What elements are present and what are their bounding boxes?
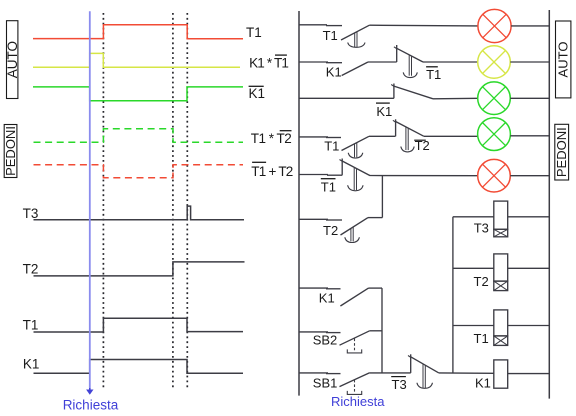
ladder left rail	[298, 11, 300, 396]
contact K1 rung2	[326, 62, 368, 79]
wire rung2 to lamp	[423, 61, 478, 63]
contact K1n rung3	[376, 84, 433, 119]
contact T3n timer	[391, 354, 439, 392]
wire SB2 rung from rail	[299, 331, 341, 334]
wire rung4 to lamp	[424, 135, 478, 137]
contact SB1 pushbutton	[313, 373, 370, 395]
svg-text:T2: T2	[23, 262, 39, 277]
wire rung4 mid	[369, 135, 396, 137]
waveform label T1 + T2 overline	[251, 162, 293, 179]
contact T1n timer rung1	[323, 25, 370, 47]
ladder right rail	[548, 10, 550, 399]
coil T2 timer	[474, 254, 508, 291]
label box AUTO right	[556, 21, 571, 98]
waveform K1 black	[34, 360, 244, 374]
lamp green2 PEDONI	[478, 118, 511, 151]
coil T1 timer	[474, 310, 508, 346]
label box AUTO left	[5, 21, 20, 99]
svg-text:T1: T1	[324, 139, 339, 154]
svg-text:AUTO: AUTO	[5, 41, 20, 78]
svg-text:K1: K1	[475, 376, 491, 391]
waveform T1n+T2 red dashed	[34, 165, 244, 178]
wire rung5 to lamp	[370, 175, 478, 177]
wire T3n contact to K1 coil	[439, 372, 494, 374]
wire rung2 from rail	[299, 61, 342, 64]
time marker dotted line 3	[186, 13, 188, 389]
svg-text:K1: K1	[326, 64, 342, 79]
svg-text:PEDONI: PEDONI	[554, 127, 569, 177]
waveform T2	[34, 262, 245, 276]
contact SB2 pushbutton	[313, 331, 370, 353]
svg-text:Richiesta: Richiesta	[63, 398, 119, 413]
lamp red AUTO	[478, 9, 511, 42]
time marker dotted line 1	[102, 13, 104, 388]
svg-text:PEDONI: PEDONI	[3, 126, 18, 176]
coil K1 contactor	[475, 360, 508, 391]
wire rung3 from rail	[299, 97, 394, 99]
svg-text:T1 + T2: T1 + T2	[251, 164, 293, 179]
svg-text:Richiesta: Richiesta	[331, 394, 385, 409]
svg-text:T1: T1	[23, 318, 39, 333]
svg-text:AUTO: AUTO	[556, 42, 571, 78]
wire rung1 to lamp	[369, 24, 478, 27]
wire rung5 from rail	[299, 174, 342, 177]
contact T2n timer rung4	[393, 119, 430, 153]
wire rung3 to lamp	[433, 97, 478, 100]
svg-text:SB1: SB1	[313, 375, 338, 390]
svg-text:T2: T2	[474, 274, 489, 289]
waveform T1 red	[33, 25, 243, 39]
contact K1 holding	[319, 288, 369, 306]
wire SB1 to T3n contact	[370, 372, 411, 374]
wire T2 contact to branch riser	[368, 217, 382, 219]
svg-text:T3: T3	[474, 221, 489, 236]
svg-text:T2: T2	[415, 138, 430, 153]
svg-text:K1: K1	[376, 104, 392, 119]
wire lamp green1 to right rail	[510, 97, 549, 99]
svg-text:SB2: SB2	[313, 333, 338, 348]
wire T3 coil to right rail	[508, 216, 550, 218]
wire T2 coil rung	[453, 267, 494, 269]
svg-text:T1: T1	[426, 67, 441, 82]
wire T1 coil to right rail	[508, 325, 550, 327]
lamp red PEDONI	[478, 159, 511, 192]
wire down bus K1/SB2 to SB1 rung	[381, 288, 383, 373]
wire coil bus vertical	[452, 217, 454, 373]
svg-text:T1: T1	[321, 179, 336, 194]
svg-text:K1 * T1: K1 * T1	[249, 55, 289, 70]
wire K1 contact to down bus	[369, 287, 383, 289]
svg-text:T1: T1	[246, 25, 262, 40]
wire lamp red PEDONI to right rail	[510, 175, 549, 177]
svg-text:T2: T2	[323, 223, 338, 238]
svg-text:T1: T1	[474, 331, 489, 346]
time marker blue request line with arrow	[86, 11, 93, 394]
wire rung4 from rail	[299, 136, 341, 139]
wire lamp red AUTO to right rail	[511, 25, 549, 27]
wire T2 coil to right rail	[508, 267, 550, 269]
wire T1 coil rung	[453, 325, 494, 327]
wire lamp yellow to right rail	[510, 61, 549, 63]
waveform label T1 * T2 overline	[251, 131, 292, 146]
svg-text:K1: K1	[249, 86, 266, 101]
waveform K1*T1n yellow	[33, 53, 240, 67]
time marker dotted line 2	[172, 13, 174, 389]
contact T1n timer rung5	[321, 159, 370, 195]
svg-text:K1: K1	[23, 357, 40, 372]
contact T1n timer rung2	[394, 45, 441, 82]
wire K1 contact rung from rail	[299, 287, 341, 290]
wire rung2 mid	[368, 61, 397, 63]
waveform T3	[34, 206, 245, 220]
contact T2 timer parallel	[323, 218, 368, 243]
svg-text:T1: T1	[323, 28, 338, 43]
coil T3 timer	[474, 201, 508, 237]
wire T2 contact rung from rail	[299, 218, 342, 221]
waveform K1n green	[33, 87, 243, 101]
wire SB1 rung from rail	[299, 372, 341, 375]
wire rung1 from rail	[299, 24, 342, 27]
waveform T1 black	[34, 318, 244, 332]
contact T1 timer rung4	[324, 136, 369, 158]
wire branch rung5 down to T2 contact	[381, 176, 383, 218]
svg-text:K1: K1	[319, 291, 335, 306]
wire lamp green2 to right rail	[510, 135, 549, 137]
wire SB2 to down bus	[370, 330, 382, 332]
wire K1 coil to right rail	[508, 373, 550, 375]
waveform label K1 overline	[249, 86, 266, 101]
svg-text:T3: T3	[23, 206, 39, 221]
lamp yellow AUTO	[478, 46, 511, 79]
waveform T1*T2n green dashed	[34, 129, 244, 143]
lamp green1 AUTO	[478, 82, 511, 115]
waveform label K1 * T1 overline	[249, 55, 289, 70]
svg-text:T1 * T2: T1 * T2	[251, 131, 292, 146]
label box PEDONI right	[554, 124, 569, 180]
svg-text:T3: T3	[392, 377, 407, 392]
wire T3 coil rung	[453, 216, 494, 218]
label box PEDONI left	[3, 125, 18, 178]
